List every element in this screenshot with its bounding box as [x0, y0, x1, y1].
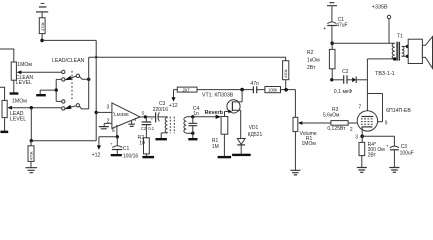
node switch common junction — [87, 78, 90, 81]
label 1MOhm pot1 — [17, 62, 32, 68]
wire to volume pot top — [294, 90, 296, 118]
capacitor C3 100uF cathode — [386, 136, 414, 167]
wire pot2 wiper down to lower bus — [30, 108, 32, 141]
svg-text:7: 7 — [358, 104, 361, 110]
ground symbol top right inverted — [327, 3, 337, 22]
wire gate riser — [224, 111, 226, 116]
svg-text:0.1: 0.1 — [148, 126, 155, 131]
svg-text:+335В: +335В — [372, 4, 388, 10]
svg-text:Reverb: Reverb — [205, 110, 224, 116]
wire anode to transformer — [367, 58, 394, 60]
node pin6 supply junction — [116, 135, 119, 138]
wire input lower to pot2 top — [0, 87, 5, 100]
wire lower bus to opamp riser — [31, 140, 96, 142]
pin 3 label — [107, 105, 110, 111]
svg-text:2: 2 — [350, 127, 353, 133]
svg-text:10: 10 — [139, 140, 145, 146]
svg-text:Т1: Т1 — [397, 33, 403, 39]
svg-text:470k: 470k — [40, 22, 45, 31]
ground volume pot — [290, 170, 300, 175]
terminal +335V — [372, 4, 391, 43]
resistor R3 5.6k grid stopper — [323, 107, 357, 132]
chassis ground bar primary — [156, 138, 167, 140]
node switch ground tap — [40, 88, 58, 94]
svg-text:430k: 430k — [283, 69, 288, 78]
resistor 470k upper — [39, 18, 45, 41]
svg-text:47n: 47n — [250, 81, 259, 87]
svg-text:0,125Вт: 0,125Вт — [327, 126, 346, 132]
potentiometer LEAD LEVEL 1MOhm — [2, 100, 61, 130]
svg-text:+: + — [323, 26, 326, 32]
capacitor C2 0.1uF feedback — [332, 69, 368, 95]
resistor R1 1M gate — [212, 117, 228, 156]
supply +12 arrow reverb driver — [169, 90, 178, 110]
chassis ground bar secondary — [188, 133, 197, 140]
svg-text:100uF: 100uF — [400, 151, 414, 157]
svg-text:4: 4 — [134, 117, 137, 122]
svg-text:1МОм: 1МОм — [17, 62, 32, 68]
label TVZ-1-1 — [375, 71, 395, 77]
label VT1 KP303V — [202, 92, 234, 98]
tube V1 6P14P — [357, 111, 377, 137]
svg-text:1МОм: 1МОм — [12, 99, 27, 105]
wire B+ rail — [332, 42, 395, 44]
svg-text:2Вт: 2Вт — [307, 65, 316, 71]
svg-text:3: 3 — [107, 105, 110, 111]
node secondary bottom — [191, 132, 194, 135]
chassis ground bar pot1 — [10, 92, 19, 94]
wire screen tie — [367, 94, 382, 122]
svg-text:+: + — [110, 141, 113, 146]
wire drain rail — [197, 89, 253, 91]
wire volume wiper to grid — [302, 122, 331, 124]
node speaker bottom — [406, 55, 409, 58]
svg-text:5,6кОм: 5,6кОм — [323, 113, 340, 119]
node lower junction — [30, 139, 33, 142]
transformer interstage secondary winding — [184, 117, 193, 133]
svg-text:С3: С3 — [401, 144, 408, 150]
svg-text:220/16: 220/16 — [153, 107, 169, 113]
svg-text:2: 2 — [107, 119, 110, 125]
svg-text:LEVEL: LEVEL — [16, 80, 32, 86]
pin 6 lead — [112, 125, 117, 137]
ground C3 — [389, 168, 399, 173]
svg-text:+12: +12 — [92, 153, 101, 159]
speaker — [408, 37, 432, 69]
transistor VT1 JFET — [225, 90, 243, 139]
svg-text:+: + — [386, 143, 389, 148]
resistor 470k lower with ground — [26, 141, 38, 173]
op-amp U1 LM386 — [112, 103, 140, 128]
svg-text:9: 9 — [385, 121, 388, 127]
capacitor C2 0.1 zobel — [141, 117, 155, 138]
transformer T1 secondary — [402, 46, 408, 56]
transformer interstage primary winding — [161, 117, 167, 138]
node 470k junction — [40, 39, 44, 43]
resistor R2 10 zobel — [138, 135, 150, 156]
label T1 — [397, 33, 403, 39]
node rail bus crossing — [95, 56, 98, 59]
node pot2 wiper junction — [30, 106, 33, 109]
label Reverb — [205, 110, 224, 116]
pin 2 lead and ground — [99, 119, 112, 129]
svg-text:6П14П-ЕВ: 6П14П-ЕВ — [386, 108, 411, 114]
svg-text:2Вт: 2Вт — [368, 153, 377, 159]
svg-text:100k: 100k — [268, 88, 278, 93]
svg-text:0,1 мкФ: 0,1 мкФ — [334, 89, 352, 95]
svg-text:С2: С2 — [342, 69, 349, 75]
svg-text:VT1: КП303В: VT1: КП303В — [202, 92, 234, 98]
node opamp input tap — [95, 111, 98, 114]
label LEAD LEVEL — [10, 111, 26, 123]
svg-text:ТВЗ-1-1: ТВЗ-1-1 — [375, 71, 395, 77]
svg-text:47uF: 47uF — [336, 22, 347, 28]
pin 4 lead and ground — [128, 117, 136, 127]
node secondary top — [191, 115, 194, 118]
svg-text:C2: C2 — [141, 126, 147, 131]
node cathode junction — [360, 135, 364, 139]
resistor 430k channel mix — [283, 61, 289, 90]
wire input upper to pot1 top — [0, 49, 14, 62]
svg-text:5: 5 — [142, 111, 145, 116]
transformer T1 core — [397, 42, 399, 61]
svg-text:1n: 1n — [193, 111, 199, 117]
svg-text:2k7: 2k7 — [183, 88, 191, 93]
resistor R4 300 Ohm cathode — [359, 136, 385, 167]
transformer T1 primary — [392, 43, 395, 59]
potentiometer CLEAN LEVEL 1MOhm — [11, 62, 61, 92]
svg-text:LEAD/CLEAN: LEAD/CLEAN — [52, 58, 85, 64]
chassis ground bar zobel — [142, 156, 154, 158]
svg-text:1МОм: 1МОм — [302, 141, 317, 147]
node mixer junction — [284, 88, 288, 92]
potentiometer Volume R1 1MOhm — [293, 117, 302, 170]
wire anode riser — [366, 59, 368, 117]
label 1MOhm pot2 — [12, 99, 27, 105]
capacitor 47n — [250, 81, 265, 93]
supply symbol above resistor 470k upper — [36, 3, 48, 18]
label LEAD/CLEAN — [52, 58, 85, 64]
ground R4 — [357, 168, 367, 173]
chassis ground bar switch — [36, 94, 46, 96]
svg-text:КД521: КД521 — [248, 132, 263, 138]
svg-text:LM386: LM386 — [114, 112, 129, 118]
capacitor C1 47uF — [323, 17, 347, 43]
switch DPDT LEAD/CLEAN — [56, 70, 88, 110]
wire 470k junction to bus — [42, 39, 96, 41]
wire pin 3 lead — [96, 111, 112, 113]
svg-text:3: 3 — [355, 135, 358, 141]
svg-text:LEVEL: LEVEL — [10, 116, 26, 122]
wire reverb input with arrow — [193, 115, 221, 119]
supply +12 arrow opamp — [92, 137, 118, 159]
svg-text:6: 6 — [112, 128, 115, 134]
transformer interstage core — [170, 117, 174, 134]
label CLEAN LEVEL — [16, 75, 34, 86]
capacitor C4 1n — [188, 106, 199, 133]
svg-text:VD1: VD1 — [249, 125, 259, 131]
resistor 2k7 — [174, 87, 198, 92]
diode VD1 KD521 — [237, 125, 262, 154]
node speaker top — [406, 45, 409, 48]
node C1 R2 junction — [330, 42, 334, 46]
capacitor C1 100/16 decoupling — [110, 137, 138, 160]
label Volume R1 1MOhm — [300, 131, 317, 147]
chassis ground bar VD1 — [232, 154, 251, 156]
svg-text:100/16: 100/16 — [123, 153, 139, 159]
svg-text:+12: +12 — [169, 103, 178, 109]
resistor R2 1kOhm 2W — [307, 43, 335, 80]
node R2 C2 junction — [330, 78, 333, 81]
svg-text:470k: 470k — [28, 152, 33, 161]
svg-text:1кОм: 1кОм — [307, 58, 320, 64]
node drain junction — [240, 88, 244, 92]
wire top rail to channel resistor — [89, 57, 286, 61]
wire vertical bus to opamp input — [95, 40, 97, 140]
node output junction — [144, 115, 147, 118]
svg-text:R2: R2 — [307, 50, 314, 56]
wire pin 5 output — [140, 111, 150, 117]
resistor 100k — [265, 87, 296, 93]
pin labels tube — [350, 104, 388, 140]
wire cathode to C3 — [362, 135, 394, 137]
svg-text:C1: C1 — [123, 146, 130, 152]
wire switch common riser — [88, 57, 90, 109]
chassis ground bar pot2 — [0, 131, 8, 134]
tube label 6P14P-EV — [386, 108, 411, 114]
capacitor C3 220/16 coupling — [145, 101, 168, 122]
node anode primary bottom — [393, 57, 396, 60]
svg-text:1М: 1М — [212, 144, 219, 150]
chassis ground bar R1 — [218, 156, 232, 158]
